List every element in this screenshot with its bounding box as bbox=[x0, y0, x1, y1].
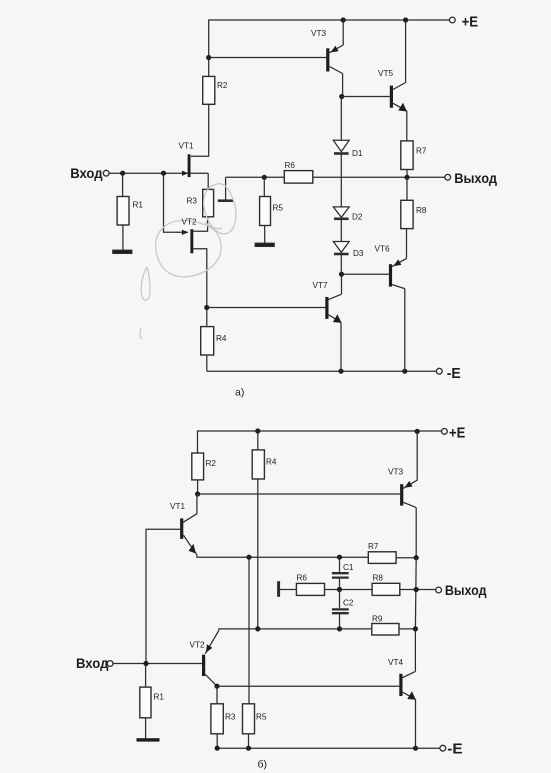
node VT2 collector / R3 / VT4 base wire bbox=[214, 684, 219, 689]
resistor R6 bbox=[284, 171, 313, 184]
svg-text:R3: R3 bbox=[225, 713, 236, 722]
svg-text:VT4: VT4 bbox=[388, 658, 403, 667]
svg-text:C1: C1 bbox=[343, 563, 354, 572]
transistor VT1 (npn, circuit b) bbox=[183, 514, 197, 523]
resistor R4 (circuit b) bbox=[257, 431, 259, 450]
wire bottom row (circuit b) bbox=[219, 629, 372, 630]
svg-text:Выход: Выход bbox=[445, 583, 487, 599]
resistor R7 bbox=[401, 141, 413, 170]
resistor R6 (circuit b) bbox=[296, 583, 324, 595]
node input / R1 bbox=[120, 171, 125, 176]
wire VT1 base (circuit b) bbox=[146, 529, 180, 663]
node C2 bottom row bbox=[337, 626, 342, 631]
node R3 bottom rail bbox=[215, 746, 220, 751]
transistor VT3 (pnp) bbox=[326, 48, 329, 71]
transistor VT1 (jfet) bbox=[182, 171, 188, 176]
terminal +E (circuit a) bbox=[449, 17, 455, 23]
wire R7 bottom to output node bbox=[406, 170, 408, 178]
node C1 top row bbox=[337, 555, 342, 560]
wire input (circuit b) bbox=[113, 663, 202, 665]
wire VT2 gate bbox=[164, 173, 188, 232]
wire VT7 base bbox=[207, 307, 326, 309]
svg-text:VT6: VT6 bbox=[375, 245, 390, 254]
svg-text:Вход: Вход bbox=[70, 166, 102, 182]
node R9 right column / VT4 collector bbox=[413, 626, 418, 631]
wire tap to R6 bbox=[280, 589, 296, 591]
svg-text:-Е: -Е bbox=[447, 740, 462, 757]
svg-text:а): а) bbox=[235, 387, 244, 399]
wire feedback column to R5 bbox=[248, 557, 250, 704]
wire +E rail (circuit b) bbox=[198, 431, 445, 453]
resistor R9 (circuit b) bbox=[372, 624, 399, 636]
resistor R1 bbox=[122, 173, 124, 196]
node R2 top / VT3 base wire bbox=[206, 55, 211, 60]
transistor VT3 (pnp, circuit b) bbox=[400, 484, 403, 505]
svg-text:VT2: VT2 bbox=[190, 641, 205, 650]
wire input (circuit a) bbox=[109, 172, 188, 174]
svg-text:Выход: Выход bbox=[454, 171, 497, 187]
node VT7 emitter to -E rail bbox=[338, 369, 343, 374]
node output row right column bbox=[414, 587, 419, 592]
svg-text:D2: D2 bbox=[352, 213, 363, 222]
node VT2 drain / R4 / VT7 base bbox=[204, 305, 209, 310]
wire -E rail (circuit a) bbox=[207, 370, 439, 372]
svg-text:R1: R1 bbox=[154, 693, 165, 702]
node VT3 emitter to +E rail bbox=[341, 17, 346, 22]
svg-text:R7: R7 bbox=[416, 147, 427, 156]
resistor R3 (circuit b) bbox=[216, 686, 218, 704]
transistor VT5 (npn) bbox=[390, 86, 393, 108]
node R4 top to +E rail bbox=[255, 428, 260, 433]
svg-text:C2: C2 bbox=[343, 599, 354, 608]
svg-text:R9: R9 bbox=[372, 615, 383, 624]
wire VT6 base bbox=[342, 273, 389, 275]
resistor R4 bbox=[201, 327, 214, 355]
wire VT3 base bbox=[209, 57, 327, 59]
terminal output (circuit a) bbox=[445, 174, 451, 180]
svg-text:+Е: +Е bbox=[449, 425, 465, 442]
tap bar left of R6 (circuit b) bbox=[277, 581, 280, 597]
svg-text:R4: R4 bbox=[266, 458, 277, 467]
wire R2 bottom to VT1 drain bbox=[191, 104, 209, 156]
svg-text:-Е: -Е bbox=[447, 365, 461, 382]
svg-text:Вход: Вход bbox=[76, 656, 108, 672]
node output row / R5 bbox=[262, 175, 267, 180]
svg-text:R2: R2 bbox=[206, 459, 217, 468]
node output row / R7 R8 bbox=[404, 175, 409, 180]
svg-text:D1: D1 bbox=[352, 149, 363, 158]
resistor R5 bbox=[263, 177, 265, 196]
svg-text:VT5: VT5 bbox=[378, 69, 393, 78]
svg-text:R4: R4 bbox=[216, 334, 227, 343]
svg-text:R1: R1 bbox=[133, 201, 144, 210]
ground under R1 (circuit b) bbox=[137, 738, 160, 741]
svg-text:R5: R5 bbox=[273, 204, 284, 213]
node VT4 emitter rail bbox=[413, 746, 418, 751]
node D3 / VT6 base / VT7 collector bbox=[339, 272, 344, 277]
wire VT3 base (circuit b) bbox=[198, 493, 401, 495]
svg-text:R6: R6 bbox=[297, 574, 308, 583]
resistor R1 (circuit b) bbox=[145, 664, 147, 688]
resistor R2 bbox=[203, 76, 215, 104]
svg-text:VT2: VT2 bbox=[182, 218, 197, 227]
wire +E rail (circuit a) bbox=[209, 20, 452, 76]
resistor R5 (circuit b) bbox=[243, 704, 255, 734]
node R2 bottom / VT1 collector / VT3 base wire bbox=[195, 491, 200, 496]
node VT3 collector / VT5 base / D1 bbox=[339, 94, 344, 99]
terminal -E (circuit a) bbox=[436, 368, 442, 374]
node VT1 emitter / feedback column bbox=[246, 555, 251, 560]
terminal -E (circuit b) bbox=[440, 745, 446, 751]
resistor R3 bbox=[203, 189, 214, 216]
wire R6 to output terminal bbox=[313, 176, 445, 178]
terminal +E (circuit b) bbox=[442, 429, 448, 435]
resistor R2 (circuit b) bbox=[192, 453, 204, 480]
wire VT5 base bbox=[342, 96, 390, 98]
svg-text:VT3: VT3 bbox=[311, 29, 326, 38]
decorative pencil squiggles bbox=[140, 184, 236, 339]
resistor R7 (circuit b) bbox=[368, 552, 396, 564]
svg-text:VT1: VT1 bbox=[179, 142, 194, 151]
node R7 right column bbox=[414, 555, 419, 560]
svg-text:R3: R3 bbox=[187, 197, 198, 206]
wire VT4 base (circuit b) bbox=[217, 685, 399, 687]
svg-text:R5: R5 bbox=[256, 713, 267, 722]
diode D2 bbox=[340, 154, 342, 207]
wire output row (circuit a) bbox=[226, 176, 285, 178]
node C1 C2 R6 R8 output row bbox=[337, 587, 342, 592]
node VT3 emitter to +E rail bbox=[415, 429, 420, 434]
svg-text:R6: R6 bbox=[285, 161, 296, 170]
node input / R1 / VT1 base column bbox=[143, 661, 148, 666]
svg-text:R8: R8 bbox=[373, 574, 384, 583]
terminal input (circuit a) bbox=[103, 170, 109, 176]
ground under R1 bbox=[113, 250, 132, 253]
capacitor C2 bbox=[339, 590, 341, 609]
node R5 bottom rail bbox=[246, 746, 251, 751]
svg-text:б): б) bbox=[258, 759, 268, 771]
wire -E rail (circuit b) bbox=[217, 747, 440, 749]
svg-text:+Е: +Е bbox=[462, 14, 479, 31]
resistor R8 (circuit b) bbox=[372, 583, 400, 595]
ground under R5 bbox=[255, 243, 274, 246]
svg-text:VT1: VT1 bbox=[170, 502, 185, 511]
transistor VT7 (npn) bbox=[329, 294, 342, 299]
transistor VT4 (npn, circuit b) bbox=[403, 671, 416, 677]
terminal output (circuit b) bbox=[436, 587, 442, 593]
terminal input (circuit b) bbox=[107, 661, 113, 667]
svg-text:VT7: VT7 bbox=[313, 281, 328, 290]
diode D1 bbox=[340, 97, 342, 141]
capacitor C1 bbox=[339, 557, 341, 572]
node VT6 collector to -E rail bbox=[402, 369, 407, 374]
svg-text:R8: R8 bbox=[416, 206, 427, 215]
wire right column (circuit b) bbox=[414, 558, 417, 629]
resistor R8 bbox=[406, 177, 408, 200]
transistor VT2 (jfet) bbox=[182, 230, 188, 235]
diode D3 bbox=[340, 219, 342, 242]
svg-text:D3: D3 bbox=[353, 249, 364, 258]
node R4 bottom / VT2 emitter bbox=[255, 626, 260, 631]
node input / VT2 gate bbox=[161, 171, 166, 176]
transistor VT2 (pnp, circuit b) bbox=[205, 630, 219, 654]
transistor VT6 (pnp) bbox=[389, 264, 392, 286]
svg-text:R7: R7 bbox=[368, 542, 379, 551]
node VT5 collector to +E rail bbox=[403, 17, 408, 22]
svg-text:R2: R2 bbox=[217, 81, 228, 90]
svg-text:VT3: VT3 bbox=[388, 468, 403, 477]
trimmer tap of R3 bbox=[225, 177, 227, 200]
